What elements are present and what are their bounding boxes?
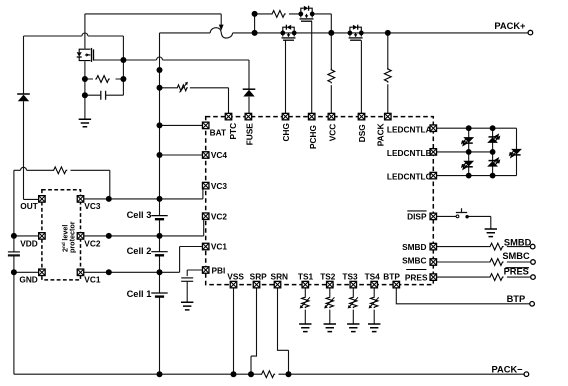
svg-text:LEDCNTLB: LEDCNTLB [387, 148, 432, 158]
svg-text:TS3: TS3 [342, 271, 358, 281]
svg-text:protector: protector [67, 221, 76, 253]
svg-text:VC3: VC3 [211, 181, 228, 191]
svg-text:SRN: SRN [271, 271, 289, 281]
svg-text:VCC: VCC [327, 124, 337, 142]
svg-text:PACK−: PACK− [492, 364, 524, 374]
svg-text:PACK: PACK [376, 123, 386, 146]
svg-text:LEDCNTLA: LEDCNTLA [387, 124, 432, 134]
svg-text:PACK+: PACK+ [494, 21, 526, 31]
svg-text:PTC: PTC [228, 123, 238, 140]
svg-text:VC4: VC4 [211, 150, 228, 160]
svg-text:PCHG: PCHG [308, 125, 318, 149]
svg-text:GND: GND [19, 275, 37, 285]
svg-text:Cell 1: Cell 1 [127, 289, 152, 299]
svg-text:SMBC: SMBC [502, 251, 530, 261]
svg-text:VC1: VC1 [84, 275, 101, 285]
svg-text:CHG: CHG [281, 123, 291, 141]
svg-text:PBI: PBI [212, 266, 226, 276]
svg-text:TS1: TS1 [298, 271, 314, 281]
svg-text:VC2: VC2 [211, 211, 228, 221]
svg-text:BTP: BTP [507, 294, 526, 304]
svg-text:SMBC: SMBC [402, 256, 426, 266]
svg-text:VSS: VSS [227, 271, 244, 281]
svg-text:SMBD: SMBD [504, 237, 532, 247]
svg-text:DISP: DISP [407, 212, 427, 222]
svg-text:SRP: SRP [250, 271, 268, 281]
svg-text:VC3: VC3 [84, 201, 101, 211]
svg-text:VC1: VC1 [211, 242, 228, 252]
svg-text:Cell 2: Cell 2 [127, 246, 152, 256]
svg-text:Cell 3: Cell 3 [127, 210, 152, 220]
svg-text:BTP: BTP [383, 271, 400, 281]
svg-text:TS4: TS4 [365, 271, 381, 281]
svg-text:BAT: BAT [210, 128, 226, 138]
svg-text:FUSE: FUSE [244, 123, 254, 146]
svg-text:VDD: VDD [20, 238, 38, 248]
svg-text:DSG: DSG [357, 124, 367, 142]
svg-text:TS2: TS2 [320, 271, 336, 281]
svg-text:OUT: OUT [20, 201, 38, 211]
svg-text:PRES: PRES [405, 273, 428, 283]
svg-text:LEDCNTLC: LEDCNTLC [387, 172, 432, 182]
svg-text:SMBD: SMBD [402, 242, 426, 252]
svg-text:VC2: VC2 [84, 238, 101, 248]
